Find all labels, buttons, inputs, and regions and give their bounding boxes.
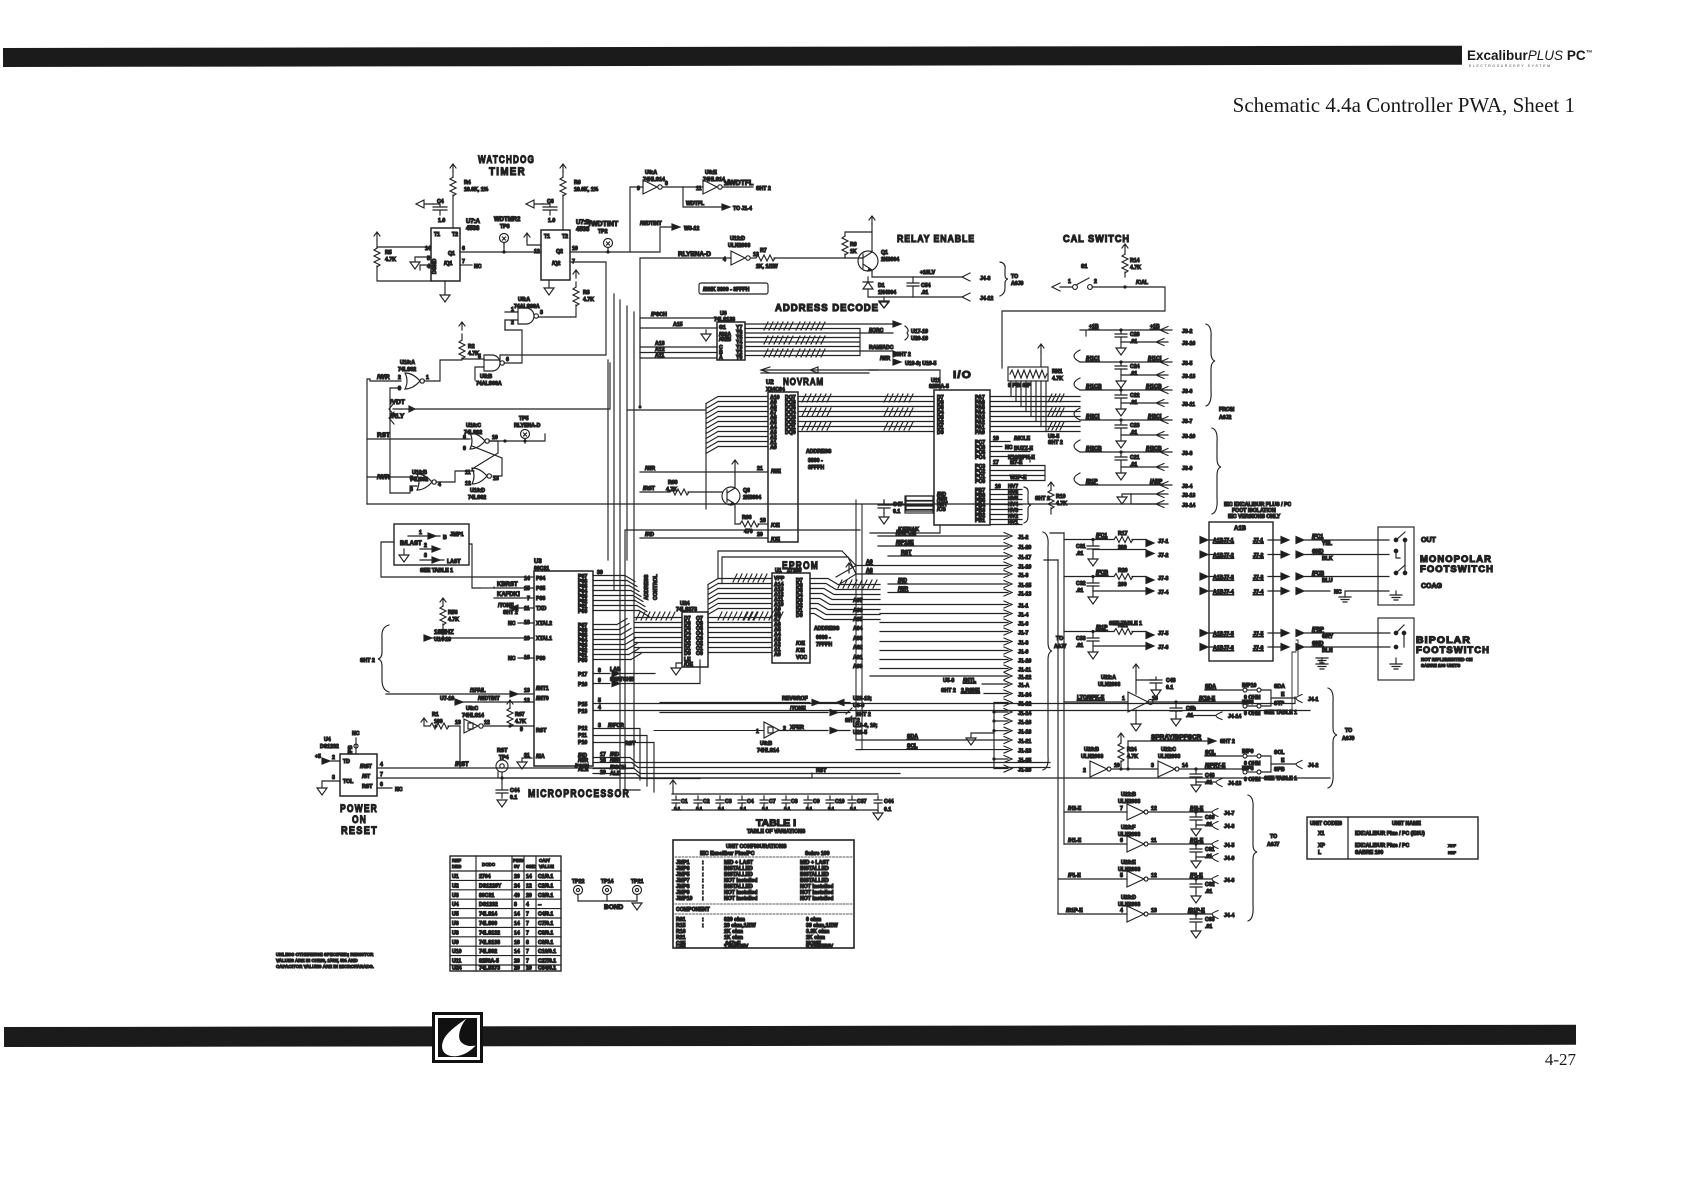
- svg-text:/SPRY-E: /SPRY-E: [1205, 763, 1226, 769]
- PA bus hatch: [1048, 394, 1064, 402]
- svg-text:13: 13: [455, 720, 461, 726]
- svg-text:J7-2: J7-2: [1253, 553, 1263, 559]
- svg-text:U5:B: U5:B: [480, 374, 492, 380]
- svg-text:1: 1: [419, 530, 422, 536]
- svg-text:BLN: BLN: [1322, 648, 1333, 654]
- connector J3-13b with gnd: [1131, 491, 1168, 498]
- svg-text:STP: STP: [1274, 701, 1285, 707]
- svg-text:/EA: /EA: [536, 754, 545, 760]
- svg-text:8: 8: [526, 940, 529, 946]
- svg-text:NC: NC: [508, 621, 516, 627]
- svg-text:U4: U4: [324, 737, 331, 743]
- svg-text:R7: R7: [760, 248, 767, 254]
- svg-text:/FCB: /FCB: [1096, 570, 1108, 576]
- brace TO A6J7 lower: [1248, 795, 1257, 921]
- svg-text:C46: C46: [676, 944, 686, 950]
- svg-text:TXD: TXD: [536, 606, 547, 612]
- svg-text:J1-11: J1-11: [1018, 668, 1031, 674]
- svg-text:C54: C54: [921, 283, 931, 289]
- svg-text:/ABP: /ABP: [1150, 479, 1163, 485]
- svg-text:VCC: VCC: [796, 655, 807, 661]
- svg-text:UNLESS OTHERWISE SPECIFIED; RE: UNLESS OTHERWISE SPECIFIED; RESISTOR: [276, 952, 374, 957]
- svg-text:C9: C9: [813, 799, 820, 805]
- row A1BJ7-4: [1200, 588, 1213, 595]
- svg-text:4.7K: 4.7K: [515, 719, 526, 725]
- svg-text:A6J9: A6J9: [1342, 736, 1355, 742]
- svg-text:19: 19: [524, 636, 530, 642]
- svg-text:4.7K: 4.7K: [468, 351, 479, 357]
- svg-text:L: L: [1318, 850, 1322, 856]
- resistor R1 100: [430, 723, 449, 729]
- svg-text:J1-22: J1-22: [1018, 675, 1031, 681]
- wire U10:A out: [424, 360, 462, 381]
- svg-text:J4-9: J4-9: [1224, 856, 1234, 862]
- svg-text:SPB: SPB: [1274, 767, 1285, 773]
- svg-text:R19: R19: [1056, 494, 1066, 500]
- svg-text:SABRE 180 UNITS: SABRE 180 UNITS: [1421, 663, 1460, 668]
- PC3..PC0 wires: [990, 466, 1045, 481]
- svg-text:14: 14: [514, 921, 520, 927]
- svg-text:C0b: C0b: [1186, 706, 1196, 712]
- svg-text:C3/0.1: C3/0.1: [538, 893, 553, 899]
- svg-text:J4-12: J4-12: [980, 296, 993, 302]
- gnd under C61: [1191, 857, 1201, 868]
- svg-text:J1-20: J1-20: [1018, 545, 1031, 551]
- svg-text:R9: R9: [850, 242, 857, 248]
- row A1BJ7-5: [1200, 630, 1213, 637]
- svg-text:BIPOLAR: BIPOLAR: [1416, 635, 1471, 645]
- svg-text:U6:A: U6:A: [645, 170, 657, 176]
- svg-text:J1-13: J1-13: [1018, 592, 1031, 598]
- svg-text:/WDTFL: /WDTFL: [727, 180, 754, 187]
- svg-text:0000 -: 0000 -: [816, 635, 831, 641]
- long horizontal link watchdog to address decoder: [469, 544, 480, 588]
- svg-text:A0: A0: [770, 445, 777, 451]
- svg-text:UNIT CODES: UNIT CODES: [1310, 821, 1343, 827]
- svg-text:SDA: SDA: [1205, 684, 1216, 690]
- svg-text:C1/0.1: C1/0.1: [538, 874, 553, 880]
- svg-text:J7-3: J7-3: [1158, 576, 1168, 582]
- svg-text:/BNK 3800 - 3FFFH: /BNK 3800 - 3FFFH: [703, 287, 750, 293]
- long rail from P13: [593, 710, 1310, 712]
- svg-text:U17-19: U17-19: [911, 329, 928, 335]
- svg-text:ULN2003: ULN2003: [1098, 682, 1120, 688]
- gnd under C47: [879, 513, 889, 524]
- svg-text:.01: .01: [921, 290, 928, 296]
- svg-text:10.0K, 1%: 10.0K, 1%: [464, 187, 489, 193]
- svg-text:26: 26: [514, 959, 520, 965]
- svg-text:NC: NC: [352, 731, 360, 737]
- svg-text:P11: P11: [578, 733, 587, 739]
- svg-text:C7: C7: [769, 799, 776, 805]
- svg-text:10: 10: [572, 246, 578, 252]
- off-page arrow into TD: [322, 758, 340, 764]
- svg-text:A1BJ7-1: A1BJ7-1: [1213, 538, 1234, 544]
- U11 bottom pin block: [905, 496, 933, 513]
- svg-text:R3: R3: [583, 290, 590, 296]
- top header black bar: [3, 46, 1462, 67]
- wire into U6:A: [630, 187, 643, 252]
- svg-text:J3-7: J3-7: [1182, 419, 1192, 425]
- svg-text:1: 1: [1122, 696, 1125, 702]
- gnd under C33: [1088, 646, 1098, 659]
- svg-text:/RST: /RST: [360, 764, 373, 770]
- bus hatch marks: [764, 322, 793, 330]
- svg-text:O0: O0: [696, 651, 703, 657]
- svg-text:PB1: PB1: [975, 518, 985, 524]
- wire arrow left on NOVRAM top rail: [761, 367, 878, 373]
- svg-text:SHT 2: SHT 2: [1048, 440, 1063, 446]
- wire U23:D out to J4-4: [1148, 913, 1212, 915]
- svg-text:J4-8: J4-8: [1224, 824, 1234, 830]
- svg-text:16: 16: [1152, 696, 1158, 702]
- svg-text:TP21: TP21: [631, 879, 644, 885]
- svg-text:/INT0: /INT0: [536, 696, 549, 702]
- svg-text:U6-9: U6-9: [853, 703, 864, 709]
- svg-text:REF: REF: [452, 858, 461, 863]
- svg-text:U22:C: U22:C: [1161, 747, 1176, 753]
- connector J4-1: [1296, 695, 1302, 703]
- long rail from P15: [593, 697, 1295, 704]
- monopolar footswitch box: [1378, 527, 1414, 605]
- svg-text:J1-23: J1-23: [1018, 749, 1031, 755]
- capacitor C62: [1190, 879, 1202, 892]
- svg-text:P00: P00: [578, 609, 587, 615]
- svg-text:A6J7: A6J7: [1054, 644, 1067, 650]
- svg-text:74LS373: 74LS373: [479, 966, 500, 972]
- svg-text:J1-10: J1-10: [1018, 659, 1031, 665]
- svg-text:200: 200: [1118, 582, 1127, 588]
- capacitor C24: [1115, 362, 1127, 375]
- svg-text:KBRST: KBRST: [497, 582, 518, 588]
- svg-text:U7-10: U7-10: [440, 696, 454, 702]
- svg-text:/RST: /RST: [455, 762, 469, 768]
- svg-text:J4-4: J4-4: [1224, 913, 1234, 919]
- wire into U6:B: [654, 730, 764, 732]
- brace SHT 2 on PB port: [1024, 487, 1031, 523]
- svg-text:DQ0: DQ0: [785, 430, 796, 436]
- off-sheet arrow at C4: [416, 200, 433, 208]
- capacitor C47: [878, 500, 890, 513]
- svg-text:+1B: +1B: [1150, 324, 1160, 330]
- svg-text:P15: P15: [578, 702, 587, 708]
- address decode output bus Y7..Y0: [745, 324, 893, 356]
- wire U22:C out: [1179, 768, 1244, 770]
- NOVRAM address input bus: [718, 397, 768, 447]
- svg-text:T2: T2: [452, 232, 458, 238]
- svg-text:FROM: FROM: [1219, 407, 1234, 413]
- connector J4-2: [1296, 761, 1302, 769]
- gnd under C46: [1191, 782, 1201, 792]
- svg-text:JMP1: JMP1: [450, 532, 464, 538]
- svg-text:SHT 2: SHT 2: [896, 352, 911, 358]
- svg-text:14: 14: [1182, 763, 1188, 769]
- svg-text:J1-21: J1-21: [1018, 739, 1031, 745]
- wire /FC1 YEL to monopolar: [1296, 537, 1389, 544]
- svg-text:J1-2: J1-2: [1018, 535, 1028, 541]
- wire switch to /CAL: [1002, 287, 1165, 368]
- gnd under C44: [497, 800, 507, 807]
- svg-text:8256A-5: 8256A-5: [479, 959, 499, 965]
- svg-text:U5-8: U5-8: [943, 678, 954, 684]
- svg-text:/OE: /OE: [684, 662, 693, 668]
- components table: [450, 856, 561, 971]
- bond wire: [578, 900, 637, 902]
- svg-text:74LS02: 74LS02: [398, 367, 416, 373]
- svg-text:A1B: A1B: [1234, 526, 1247, 532]
- svg-text:/WR: /WR: [377, 374, 390, 381]
- connector J4-3: [962, 273, 970, 281]
- wire U22:F out to J4-5: [1148, 843, 1212, 845]
- bottom black bar: [4, 1025, 1576, 1047]
- jumper out to J4-1: [1271, 697, 1296, 699]
- svg-text:NC: NC: [508, 656, 516, 662]
- connector J7-4: [1093, 588, 1154, 595]
- svg-text:A04: A04: [853, 626, 863, 632]
- svg-text:J7-2: J7-2: [1158, 553, 1168, 559]
- svg-text:J7-4: J7-4: [1253, 590, 1263, 596]
- svg-text:C24: C24: [1130, 364, 1140, 370]
- svg-text:J1-18: J1-18: [1018, 730, 1031, 736]
- svg-text:10.0K, 1%: 10.0K, 1%: [574, 187, 599, 193]
- svg-text:4.7K: 4.7K: [448, 617, 459, 623]
- svg-text:MONOPOLAR: MONOPOLAR: [1420, 554, 1492, 564]
- svg-text:+1B: +1B: [1089, 324, 1099, 330]
- svg-text:COMPONENT: COMPONENT: [676, 907, 711, 913]
- svg-text:21: 21: [757, 466, 763, 472]
- wire into U23:E: [1058, 878, 1127, 880]
- svg-text:XTAL1: XTAL1: [536, 636, 552, 642]
- svg-text:A6J7: A6J7: [1267, 842, 1280, 848]
- PB7..PB0 wires: [990, 490, 1022, 525]
- resistor R3: [573, 287, 579, 306]
- svg-text:ADDRESS: ADDRESS: [806, 449, 832, 455]
- svg-text:4.7K: 4.7K: [385, 257, 396, 263]
- svg-text:HV1: HV1: [1008, 520, 1018, 526]
- svg-text:MICROPROCESSOR: MICROPROCESSOR: [528, 788, 630, 800]
- svg-text:A6J9: A6J9: [1011, 281, 1024, 287]
- gnd arrow under U7:A: [440, 281, 450, 302]
- svg-text:/B1P: /B1P: [1086, 479, 1098, 485]
- left +5 arrow: [374, 232, 380, 240]
- svg-text:13: 13: [493, 476, 499, 482]
- svg-text:J3-14: J3-14: [1182, 503, 1195, 509]
- capacitor C31: [1087, 540, 1099, 554]
- connector J3-13: [1116, 372, 1168, 389]
- svg-text:NC: NC: [474, 264, 482, 270]
- svg-text:J4-7: J4-7: [1224, 811, 1234, 817]
- svg-text:A1BJ7-2: A1BJ7-2: [1213, 553, 1234, 559]
- svg-text:C61: C61: [1205, 847, 1215, 853]
- svg-text:B/LAST: B/LAST: [400, 541, 422, 547]
- svg-text:TIMER: TIMER: [489, 166, 526, 178]
- svg-text:A15: A15: [673, 322, 683, 328]
- svg-text:/WDTINT: /WDTINT: [589, 221, 619, 228]
- svg-text:74LS02: 74LS02: [468, 495, 486, 501]
- svg-text:Q1: Q1: [448, 251, 455, 257]
- svg-text:Y0: Y0: [736, 355, 742, 361]
- svg-text:.01: .01: [1205, 780, 1212, 786]
- svg-text:E: E: [1281, 692, 1285, 698]
- svg-text:13: 13: [1151, 908, 1157, 914]
- cpu data bus P07-P00 fan: [593, 576, 639, 611]
- svg-text:J1-16: J1-16: [1018, 720, 1031, 726]
- svg-text:R66: R66: [742, 515, 752, 521]
- svg-text:/F1-E: /F1-E: [1190, 873, 1203, 879]
- diode D1 1N4004: [863, 277, 873, 297]
- wire RST rail right: [502, 773, 812, 778]
- svg-text:C2: C2: [703, 799, 710, 805]
- svg-text:C21: C21: [1130, 455, 1140, 461]
- svg-text:TO: TO: [1011, 274, 1018, 280]
- lower rail to J4-12: [868, 296, 963, 298]
- svg-text:J1-19: J1-19: [1018, 565, 1031, 571]
- gnd mark after title: [879, 301, 889, 308]
- bus hatch at 735 top: [733, 574, 767, 582]
- svg-text:1.0: 1.0: [438, 218, 445, 224]
- svg-text:SCL: SCL: [907, 744, 918, 750]
- resistor network RN1 4.7K: [1038, 344, 1044, 352]
- svg-text:C10/0.1: C10/0.1: [538, 949, 556, 955]
- capacitor C63: [1190, 914, 1202, 927]
- connector J1-4: [1004, 610, 1012, 617]
- sht2 slash marks: [846, 708, 852, 722]
- svg-text:C37: C37: [857, 799, 867, 805]
- long vertical feed bus left of drivers: [1058, 533, 1064, 914]
- svg-text:U22:B: U22:B: [1121, 792, 1136, 798]
- svg-text:J7-3: J7-3: [1253, 575, 1263, 581]
- svg-text:C60: C60: [1205, 815, 1215, 821]
- svg-text:ULN2003: ULN2003: [1118, 799, 1140, 805]
- svg-text:12: 12: [1151, 806, 1157, 812]
- svg-text:/CE: /CE: [796, 648, 805, 654]
- svg-text:7: 7: [526, 959, 529, 965]
- resistor R7: [751, 257, 756, 259]
- svg-text:P30: P30: [536, 656, 545, 662]
- wire U6:A to U6:E: [663, 186, 703, 188]
- svg-text:/WR: /WR: [610, 758, 620, 764]
- wires U7:A left pins: [377, 247, 431, 270]
- svg-text:FOOTSWITCH: FOOTSWITCH: [1420, 564, 1494, 574]
- svg-text:KAFDK!: KAFDK!: [497, 592, 520, 598]
- svg-text:7FFFH: 7FFFH: [816, 642, 832, 648]
- gnd under C48: [1151, 687, 1161, 697]
- svg-text:U10: U10: [452, 949, 462, 955]
- svg-text:8: 8: [598, 668, 601, 674]
- capacitor C61: [1190, 844, 1202, 857]
- svg-text:BUZZ-E: BUZZ-E: [1014, 446, 1034, 452]
- svg-text:5: 5: [598, 698, 601, 704]
- svg-text:SCL: SCL: [1205, 750, 1216, 756]
- wire U10:C out: [489, 434, 545, 441]
- svg-text:14: 14: [526, 874, 532, 880]
- capacitor C46: [1190, 769, 1202, 782]
- svg-text:.01: .01: [1205, 889, 1212, 895]
- jumper out to J4-2: [1271, 763, 1296, 765]
- connector J4-13: [1196, 779, 1222, 787]
- svg-text:A1BJ7-4: A1BJ7-4: [1213, 590, 1234, 596]
- svg-text:/H1CB: /H1CB: [1146, 384, 1162, 390]
- connector J1-10: [1004, 656, 1012, 663]
- svg-text:20: 20: [514, 966, 520, 972]
- svg-text:/F1-E: /F1-E: [1068, 873, 1081, 879]
- gnd arrow at U9: [701, 330, 711, 341]
- capacitor C32: [1087, 577, 1099, 592]
- bus hatch group at 640: [636, 612, 675, 620]
- svg-text:PA0: PA0: [975, 430, 985, 436]
- svg-text:R2: R2: [468, 344, 475, 350]
- svg-text:NOT IMPLEMENTED ON: NOT IMPLEMENTED ON: [1421, 657, 1473, 662]
- capacitor C54: [907, 277, 919, 297]
- connector J4-9: [1196, 854, 1218, 862]
- svg-text:SHT 2: SHT 2: [941, 688, 956, 694]
- row A1BJ7-1: [1200, 537, 1213, 544]
- svg-text:EXCALIBUR Plus / PC: EXCALIBUR Plus / PC: [1355, 843, 1409, 849]
- svg-text:4.7K: 4.7K: [1052, 376, 1063, 382]
- svg-text:P10: P10: [578, 740, 587, 746]
- svg-text:/SSPCM: /SSPCM: [896, 530, 916, 536]
- U22:A buffer triangle: [1128, 692, 1153, 712]
- svg-text:C8: C8: [791, 799, 798, 805]
- wire U7:A Q1 to U7:B: [460, 251, 541, 253]
- brace IEC versions: [1212, 428, 1221, 514]
- svg-text:R17: R17: [1118, 531, 1128, 537]
- svg-text:J3-13: J3-13: [1182, 493, 1195, 499]
- svg-text:BLU: BLU: [1322, 578, 1333, 584]
- svg-text:NC: NC: [1005, 445, 1013, 451]
- svg-text:RN1: RN1: [1052, 369, 1062, 375]
- svg-text:C22: C22: [1130, 393, 1140, 399]
- svg-text:J3-2: J3-2: [1182, 329, 1192, 335]
- transistor Q3 2N3904: [722, 487, 740, 505]
- svg-text:XTAL2: XTAL2: [536, 621, 552, 627]
- svg-text:/H1-E: /H1-E: [1190, 838, 1204, 844]
- svg-text:8256A-5: 8256A-5: [929, 384, 949, 390]
- svg-text:U10:D: U10:D: [470, 488, 485, 494]
- svg-text:Q1: Q1: [881, 250, 888, 256]
- capacitor C22: [1115, 390, 1127, 403]
- NC row: [1296, 588, 1330, 595]
- svg-text:12: 12: [524, 698, 530, 704]
- svg-text:ULN2003: ULN2003: [1081, 754, 1103, 760]
- svg-text:W1P-E: W1P-E: [1010, 475, 1027, 481]
- NC stub on U7:A pin 7: [460, 264, 472, 266]
- svg-text:C7/0.1: C7/0.1: [538, 921, 553, 927]
- svg-text:R20: R20: [1118, 568, 1128, 574]
- sr latch cross coupling wires: [436, 441, 502, 482]
- row A1BJ7-2: [1200, 551, 1213, 558]
- svg-text:DS1220Y: DS1220Y: [479, 883, 502, 889]
- svg-text:4.7K: 4.7K: [1127, 754, 1138, 760]
- resistor R14: [1122, 254, 1128, 273]
- svg-text:J1-A: J1-A: [1018, 683, 1029, 689]
- svg-text:3: 3: [332, 775, 335, 781]
- wire U22:A out: [1149, 701, 1244, 703]
- svg-text:NC: NC: [395, 787, 403, 793]
- svg-text:C23: C23: [1130, 423, 1140, 429]
- svg-text:J3-8: J3-8: [1182, 451, 1192, 457]
- svg-text:ADDRESS DECODE: ADDRESS DECODE: [775, 303, 879, 314]
- svg-text:3800 -: 3800 -: [808, 458, 823, 464]
- svg-text:TP22: TP22: [572, 879, 585, 885]
- unit codes table: [1307, 817, 1478, 859]
- EPROM data out bus to A0x labels: [810, 579, 880, 620]
- svg-text:74HLS14: 74HLS14: [757, 748, 779, 754]
- svg-text:J1-8: J1-8: [1018, 641, 1028, 647]
- bipolar switch contacts: [1394, 631, 1398, 635]
- long rail A8 A9 from cpu region to right: [836, 566, 856, 585]
- svg-text:2: 2: [332, 755, 335, 761]
